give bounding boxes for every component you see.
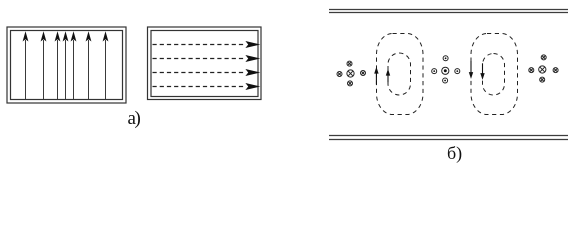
svg-text:б): б) <box>447 143 462 164</box>
svg-text:а): а) <box>128 108 141 129</box>
